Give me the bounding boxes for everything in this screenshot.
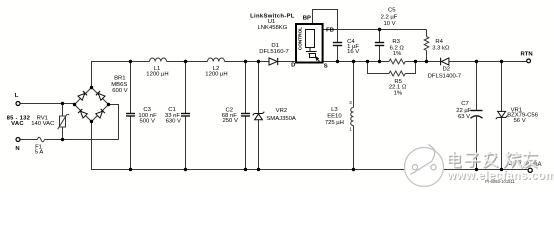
svg-text:600 V: 600 V: [112, 88, 127, 94]
svg-text:D: D: [291, 63, 295, 69]
svg-text:www.elecfans.com: www.elecfans.com: [446, 170, 554, 182]
svg-text:1200 µH: 1200 µH: [146, 72, 168, 78]
svg-text:FB: FB: [326, 27, 334, 33]
svg-text:R4: R4: [435, 39, 443, 45]
svg-text:3: 3: [349, 100, 352, 105]
svg-text:VR2: VR2: [276, 108, 287, 114]
svg-text:SMAJ350A: SMAJ350A: [266, 116, 296, 122]
svg-text:1200 µH: 1200 µH: [205, 72, 227, 78]
svg-text:MB6S: MB6S: [111, 82, 127, 88]
svg-text:R3: R3: [392, 39, 400, 45]
svg-text:D2: D2: [443, 67, 451, 73]
svg-text:10 V: 10 V: [383, 21, 395, 27]
svg-text:EE10: EE10: [327, 114, 342, 120]
svg-text:BR1: BR1: [114, 75, 125, 81]
svg-text:CONTROL: CONTROL: [297, 27, 302, 50]
svg-text:C7: C7: [461, 101, 469, 107]
svg-text:22.1 Ω: 22.1 Ω: [389, 84, 407, 90]
svg-text:L: L: [15, 93, 19, 99]
svg-text:16 V: 16 V: [347, 49, 359, 55]
svg-text:630 V: 630 V: [166, 118, 181, 124]
svg-text:RTN: RTN: [521, 52, 533, 58]
svg-text:DFL5160-7: DFL5160-7: [259, 49, 288, 55]
svg-text:250 V: 250 V: [222, 118, 237, 124]
svg-text:VAC: VAC: [11, 121, 24, 127]
svg-text:C5: C5: [388, 7, 396, 13]
svg-text:DFLS1400-7: DFLS1400-7: [428, 73, 461, 79]
svg-text:140 VAC: 140 VAC: [31, 121, 55, 127]
svg-text:BP: BP: [303, 16, 311, 22]
svg-text:63 V: 63 V: [458, 114, 470, 120]
svg-text:S: S: [324, 64, 328, 70]
svg-text:1: 1: [349, 127, 352, 132]
svg-text:3.3 kΩ: 3.3 kΩ: [432, 45, 450, 51]
svg-text:L3: L3: [331, 107, 338, 113]
svg-text:5 A: 5 A: [35, 150, 44, 156]
svg-text:56 V: 56 V: [514, 118, 526, 124]
svg-text:725 µH: 725 µH: [325, 120, 344, 126]
svg-text:2.2 µF: 2.2 µF: [381, 15, 398, 21]
svg-text:U1: U1: [268, 19, 276, 25]
svg-text:N: N: [15, 146, 19, 152]
svg-text:1%: 1%: [393, 51, 402, 57]
svg-text:500 V: 500 V: [139, 118, 154, 124]
svg-text:1%: 1%: [394, 91, 403, 97]
svg-text:LNK458KG: LNK458KG: [257, 25, 287, 31]
